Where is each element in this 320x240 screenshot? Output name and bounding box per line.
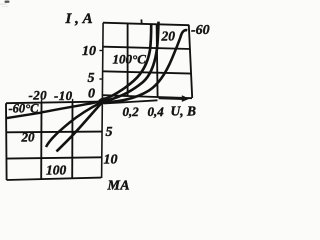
svg-text:100: 100 xyxy=(46,163,67,178)
axis tick stubs left of I axis xyxy=(99,50,103,52)
U axis arrow (positive side) xyxy=(159,95,190,102)
origin blob xyxy=(97,96,110,105)
tick above top border xyxy=(140,19,142,24)
svg-text:0,4: 0,4 xyxy=(148,104,165,119)
svg-text:10: 10 xyxy=(82,44,96,59)
lower grid box (quadrant III) xyxy=(6,102,102,180)
svg-text:0: 0 xyxy=(88,87,95,102)
corner smudge xyxy=(0,1,10,8)
forward curve 100C xyxy=(104,25,152,100)
svg-text:0,2: 0,2 xyxy=(123,104,140,119)
svg-text:10: 10 xyxy=(104,153,118,168)
svg-text:МА: МА xyxy=(107,179,130,194)
reverse curve -60 xyxy=(6,101,102,118)
tick stubs above U axis (negative side) xyxy=(41,99,43,103)
forward curve -60 xyxy=(104,30,188,102)
svg-text:5: 5 xyxy=(88,71,95,86)
svg-text:20: 20 xyxy=(21,130,36,145)
svg-text:I,A: I,A xyxy=(65,11,97,27)
svg-text:-60: -60 xyxy=(191,23,210,38)
U axis line (positive side) xyxy=(104,100,158,103)
reverse curve 20 xyxy=(46,102,102,147)
svg-text:-10: -10 xyxy=(54,88,73,103)
svg-text:20: 20 xyxy=(161,29,176,44)
svg-text:-20: -20 xyxy=(29,88,48,103)
I axis (vertical) xyxy=(102,23,104,178)
svg-text:100°С: 100°С xyxy=(113,52,147,67)
svg-text:5: 5 xyxy=(106,125,113,140)
svg-text:-60°С: -60°С xyxy=(9,102,40,116)
reverse curve 100 xyxy=(57,103,103,152)
forward curve 20 xyxy=(104,22,159,101)
upper grid box (quadrant I) xyxy=(103,23,192,99)
svg-text:U, В: U, В xyxy=(171,104,197,119)
